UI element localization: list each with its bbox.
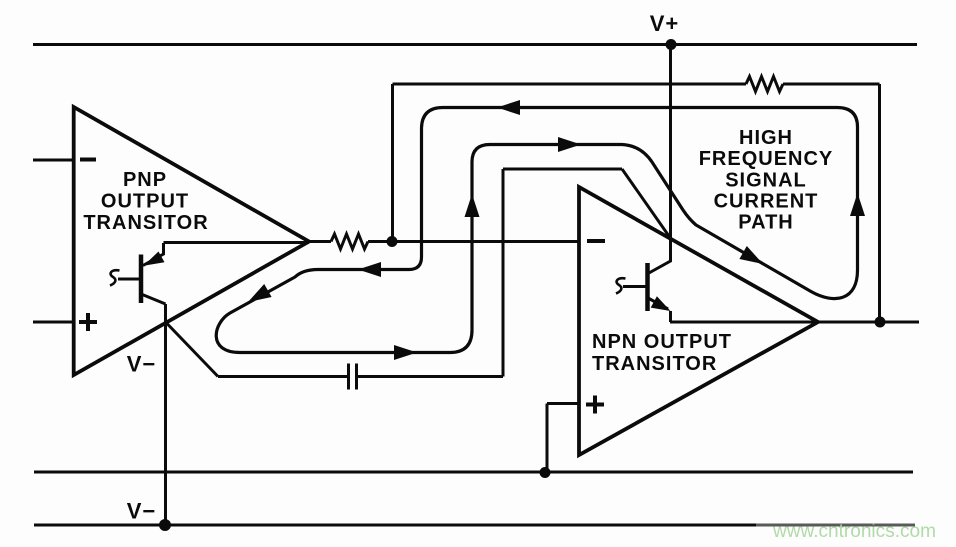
svg-text:HIGH: HIGH xyxy=(739,127,793,149)
svg-text:SIGNAL: SIGNAL xyxy=(725,170,807,192)
svg-text:V−: V− xyxy=(127,352,157,377)
svg-text:PNP: PNP xyxy=(123,169,167,191)
svg-text:PATH: PATH xyxy=(738,212,793,234)
svg-text:V−: V− xyxy=(127,499,157,524)
svg-text:CURRENT: CURRENT xyxy=(714,191,819,213)
svg-text:www.cntronics.com: www.cntronics.com xyxy=(772,521,936,542)
svg-text:TRANSITOR: TRANSITOR xyxy=(83,212,208,234)
svg-text:OUTPUT: OUTPUT xyxy=(101,191,189,213)
svg-text:NPN OUTPUT: NPN OUTPUT xyxy=(592,331,732,353)
svg-text:V+: V+ xyxy=(650,11,680,36)
svg-text:TRANSITOR: TRANSITOR xyxy=(592,353,717,375)
svg-text:FREQUENCY: FREQUENCY xyxy=(699,148,834,170)
